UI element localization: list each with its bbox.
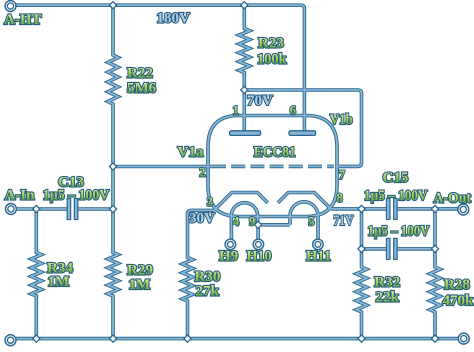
wire second C15 row right (outline pass) [397,247,435,251]
wire C13 to grid junction (outline pass) [77,207,113,211]
svg-text:9: 9 [249,215,255,229]
tube V1 envelope ECC81 (centre pass) [208,116,337,217]
wire A-In input row to C13 (centre pass) [11,208,68,210]
svg-text:1µ5 – 100V: 1µ5 – 100V [43,187,110,203]
svg-text:A-HT: A-HT [4,12,42,28]
wire R32 column (cathode V1b load) (centre pass) [356,209,366,339]
tube V1 envelope ECC81 (outline pass) [208,116,337,217]
svg-text:6: 6 [290,103,296,117]
wire cathode V1b row to C15 (centre pass) [331,208,387,210]
svg-text:R23: R23 [258,36,284,52]
node heater pin 9 / H10 [255,221,262,228]
svg-text:H9: H9 [219,249,238,265]
svg-text:1M: 1M [48,274,70,290]
svg-text:100k: 100k [257,52,287,68]
wire anode V1a stem pin 1 (outline pass) [243,90,247,133]
node 180V rail / R23 [241,2,248,9]
heater filament V1b arch pins 9-5 (outline pass) [290,202,318,240]
node ground / R30 [184,335,191,342]
wire R32 column (cathode V1b load) (outline pass) [356,209,366,339]
wire grid V1a to tube pin 2 (outline pass) [113,165,212,169]
wire R28 column (output load) (outline pass) [430,209,440,339]
cathode V1a electrode and pin 3 lead (outline pass) [214,193,268,211]
terminal A-Out [458,204,469,215]
svg-text:470k: 470k [443,293,474,309]
svg-text:ECC81: ECC81 [254,145,296,161]
cathode V1b electrode and pin 8 lead (outline pass) [278,193,331,209]
capacitor C15 lower 1u5 100V [386,238,390,259]
terminal H11 heater [313,239,324,250]
wire grid V1a to tube pin 2 (centre pass) [113,166,212,168]
wire C15 to A-Out (centre pass) [397,208,458,210]
svg-text:5M6: 5M6 [127,81,157,97]
terminal H9 heater [225,239,236,250]
wire C13 to grid junction (centre pass) [77,208,113,210]
svg-text:8: 8 [337,191,343,205]
heater pin 9 tie wire (centre pass) [258,224,290,226]
wire R34 column (centre pass) [31,209,41,339]
svg-text:1µ5 – 100V: 1µ5 – 100V [368,223,430,239]
wire cathode V1a to R30 (centre pass) [182,210,214,338]
svg-text:3: 3 [207,195,213,209]
wire ground bottom rail (centre pass) [11,338,464,340]
node lower C15 right [431,245,438,252]
grid electrode dashed line (outline pass) [212,165,334,169]
node ground / R28 [431,335,438,342]
wire A-In input row to C13 (outline pass) [11,207,68,211]
svg-text:A-Out: A-Out [434,191,472,207]
wire R22-R29 column (grid V1a net) (centre pass) [108,5,118,338]
svg-text:V1a: V1a [178,145,204,161]
wire second C15 row left (centre pass) [362,248,387,250]
wire ground bottom rail (outline pass) [11,337,464,341]
node ground / R34 [33,335,40,342]
svg-text:1µ5 – 100V: 1µ5 – 100V [364,188,428,204]
svg-text:27k: 27k [196,283,220,299]
wire R28 column (output load) (centre pass) [430,209,440,339]
node 70V anode V1a [241,86,248,93]
svg-text:R22: R22 [127,65,153,81]
svg-text:H11: H11 [306,249,331,265]
wire R23 column (anode V1a load) (centre pass) [239,5,250,90]
svg-text:22k: 22k [376,290,400,306]
wire anode V1a stem pin 1 (centre pass) [243,90,245,133]
wire 180V top rail and V1b anode feed (centre pass) [11,5,305,133]
terminal A-HT [5,1,16,12]
node ground / R32 [358,335,365,342]
svg-text:C15: C15 [383,170,409,186]
wire 180V top rail and V1b anode feed (outline pass) [11,5,305,133]
wire R23 column (anode V1a load) (outline pass) [239,5,250,90]
svg-text:1M: 1M [129,277,151,293]
svg-text:4: 4 [233,215,240,229]
svg-text:R30: R30 [195,269,221,285]
node ground / R29 [109,335,116,342]
wire cathode V1b row to C15 (outline pass) [331,207,387,211]
heater filament V1a arch pins 4-9 (centre pass) [231,203,257,240]
node C15 / R28 / A-Out [431,205,438,212]
svg-text:R32: R32 [374,275,400,291]
wire R22-R29 column (grid V1a net) (outline pass) [108,5,118,338]
svg-text:2: 2 [199,165,205,179]
wire second C15 row right (centre pass) [397,248,435,250]
terminal H10 heater [253,239,264,250]
svg-text:30V: 30V [189,210,215,226]
anode plate V1a (pin 1) [230,131,261,136]
terminal ground left [5,335,16,346]
svg-text:V1b: V1b [330,112,353,128]
cathode V1a electrode and pin 3 lead (centre pass) [214,193,268,211]
node A-In / R34 [33,205,40,212]
node lower C15 left [358,245,365,252]
svg-text:7: 7 [339,168,345,182]
terminal A-In [5,204,16,215]
wire C15 to A-Out (outline pass) [397,207,458,211]
node grid V1a / R22 [109,163,116,170]
terminal ground right [458,333,469,344]
heater pin 9 tie wire (outline pass) [258,223,290,227]
svg-text:70V: 70V [247,93,273,109]
wire second C15 row left (outline pass) [362,247,387,251]
svg-text:1: 1 [233,103,239,117]
heater H10 drop wire (outline pass) [256,225,260,240]
svg-text:180V: 180V [157,10,191,26]
svg-text:A-In: A-In [5,188,36,204]
node C13 / R29 / grid [109,205,116,212]
cathode V1b electrode and pin 8 lead (centre pass) [278,193,331,209]
svg-text:R28: R28 [444,277,470,293]
capacitor C15 upper 1u5 100V [386,198,390,219]
wire 70V line to grid V1b pin 7 (centre pass) [244,90,361,166]
wire 70V line to grid V1b pin 7 (outline pass) [244,90,361,166]
node 180V rail / R22 [109,2,116,9]
wire R34 column (outline pass) [31,209,41,339]
svg-text:H10: H10 [247,249,272,265]
heater H10 drop wire (centre pass) [257,225,259,240]
heater filament V1b arch pins 9-5 (centre pass) [290,202,318,240]
grid electrode dashed line (centre pass) [212,165,334,167]
node cathode V1b / R32 [358,205,365,212]
svg-text:5: 5 [308,215,314,229]
wire cathode V1a to R30 (outline pass) [182,210,214,338]
capacitor C13 1u5 100V [67,199,71,220]
svg-text:71V: 71V [334,213,354,229]
anode plate V1b (pin 6) [289,131,316,136]
heater filament V1a arch pins 4-9 (outline pass) [231,203,257,240]
